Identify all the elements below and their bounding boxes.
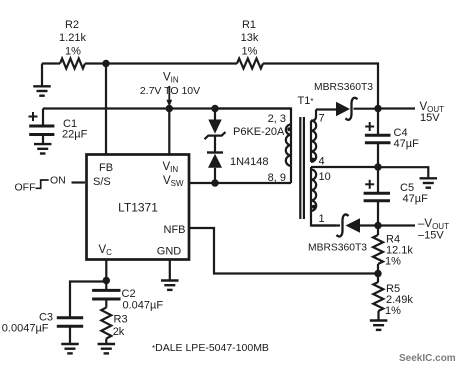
ground (IC GND) <box>161 281 179 290</box>
ground (R5) <box>370 311 388 330</box>
svg-text:10: 10 <box>319 171 331 183</box>
T1 primary winding <box>215 109 291 184</box>
wire VC to C3 branch <box>70 282 106 318</box>
node VIN junction <box>166 105 173 112</box>
op-amp U1 LT1371 box <box>87 155 190 260</box>
svg-text:0.047µF: 0.047µF <box>123 300 164 312</box>
svg-text:T1*: T1* <box>298 95 314 107</box>
capacitor C5 <box>364 167 428 205</box>
wire top rail right to output node <box>263 64 378 109</box>
diode D2 1N4148 <box>207 136 269 183</box>
node -VOUT junction <box>374 222 381 229</box>
diode MBRS360T3 (bottom) <box>308 214 378 253</box>
wire VIN rail <box>43 107 291 109</box>
svg-text:R2: R2 <box>65 19 79 31</box>
ground (C3) <box>61 326 79 353</box>
node zener top junction <box>211 105 218 112</box>
resistor R1 <box>237 19 263 69</box>
svg-text:S/S: S/S <box>93 176 111 188</box>
svg-text:0.0047µF: 0.0047µF <box>2 323 49 335</box>
wire C4 to midpoint <box>377 143 379 167</box>
svg-text:R1: R1 <box>242 19 256 31</box>
wire GND pin drop <box>169 260 171 280</box>
svg-text:ON: ON <box>50 175 66 187</box>
svg-text:OFF: OFF <box>15 182 36 194</box>
svg-text:*DALE LPE-5047-100MB: *DALE LPE-5047-100MB <box>152 342 269 354</box>
node -VOUT label <box>418 218 449 242</box>
node FB junction <box>102 60 109 67</box>
wire top rail left <box>42 62 60 64</box>
capacitor C1 <box>29 109 88 141</box>
T1 secondary winding bottom (10-1) <box>311 167 336 226</box>
wire VOUT stub <box>378 107 415 109</box>
wire VSW to transformer <box>189 182 291 184</box>
svg-text:2k: 2k <box>113 326 125 338</box>
node VC junction <box>103 277 110 284</box>
svg-text:–15V: –15V <box>418 230 444 242</box>
node VSW junction <box>211 179 218 186</box>
svg-text:SeekIC.com: SeekIC.com <box>399 353 456 364</box>
ground (C1) <box>34 135 52 154</box>
ground (R3) <box>98 339 116 354</box>
svg-text:1%: 1% <box>65 46 81 58</box>
node VIN label <box>140 72 200 107</box>
resistor R5 <box>373 274 413 318</box>
ground (midpoint) <box>420 178 438 187</box>
svg-text:C2: C2 <box>122 288 136 300</box>
svg-text:MBRS360T3: MBRS360T3 <box>314 82 373 93</box>
svg-text:1%: 1% <box>385 256 401 268</box>
svg-text:13k: 13k <box>241 32 259 44</box>
wire FB drop <box>105 64 107 155</box>
svg-text:47µF: 47µF <box>403 193 429 205</box>
node midpoint junction <box>374 163 381 170</box>
svg-text:7: 7 <box>319 113 325 125</box>
wire top rail middle <box>85 62 237 64</box>
wire R4 to NFB node <box>377 264 379 274</box>
svg-text:1N4148: 1N4148 <box>230 156 269 168</box>
node VOUT junction <box>374 105 381 112</box>
wire VC drop <box>105 260 107 281</box>
svg-text:2, 3: 2, 3 <box>268 113 286 125</box>
resistor R4 <box>373 226 413 268</box>
wire pin4 tap to C4/C5 midpoint <box>311 166 378 168</box>
wire NFB run <box>189 228 378 274</box>
svg-text:LT1371: LT1371 <box>118 201 158 215</box>
svg-text:P6KE-20A: P6KE-20A <box>233 126 285 138</box>
T1 phase dot pin 1 <box>312 205 316 209</box>
node NFB junction <box>374 270 381 277</box>
svg-text:NFB: NFB <box>164 224 186 236</box>
T1 phase dot pin 4 <box>311 158 315 162</box>
capacitor C2 <box>92 281 163 312</box>
wire -VOUT stub <box>378 224 415 226</box>
svg-text:22µF: 22µF <box>62 129 88 141</box>
svg-text:FB: FB <box>99 162 113 174</box>
capacitor C4 <box>365 109 419 151</box>
wire midpoint to ground <box>378 167 428 177</box>
svg-text:1%: 1% <box>385 305 401 317</box>
T1 primary phase dot <box>287 127 291 131</box>
zener D1 P6KE-20A <box>205 109 286 140</box>
svg-text:1%: 1% <box>242 46 258 58</box>
capacitor C3 <box>2 312 83 335</box>
svg-text:R3: R3 <box>114 314 128 326</box>
node VOUT label <box>420 101 445 124</box>
T1 core <box>300 117 304 219</box>
T1 secondary winding top (7-4) <box>311 110 316 162</box>
diode MBRS360T3 (top) <box>314 82 378 120</box>
svg-text:4: 4 <box>319 156 325 168</box>
svg-text:1.21k: 1.21k <box>59 32 86 44</box>
svg-text:MBRS360T3: MBRS360T3 <box>308 243 367 254</box>
svg-text:1: 1 <box>319 213 325 225</box>
wire C5 to -VOUT node <box>377 201 379 226</box>
resistor R2 <box>59 19 86 69</box>
svg-text:8, 9: 8, 9 <box>268 172 286 184</box>
resistor R3 <box>101 299 127 339</box>
wire S/S dash <box>72 181 86 183</box>
node OFF/ON control <box>15 175 66 194</box>
svg-text:GND: GND <box>157 246 182 258</box>
svg-text:15V: 15V <box>420 112 440 124</box>
ground (R2 left) <box>33 64 51 96</box>
wire VIN pin drop <box>168 109 170 155</box>
svg-text:47µF: 47µF <box>394 138 420 150</box>
